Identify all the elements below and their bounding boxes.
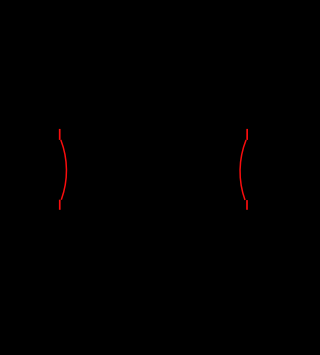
left bracket top bond stub [59, 129, 61, 140]
left bracket arc [61, 140, 67, 200]
right bracket bottom bond stub [246, 200, 248, 210]
right bracket arc [240, 140, 246, 200]
right bracket top bond stub [246, 129, 248, 140]
left bracket bottom bond stub [59, 200, 61, 210]
